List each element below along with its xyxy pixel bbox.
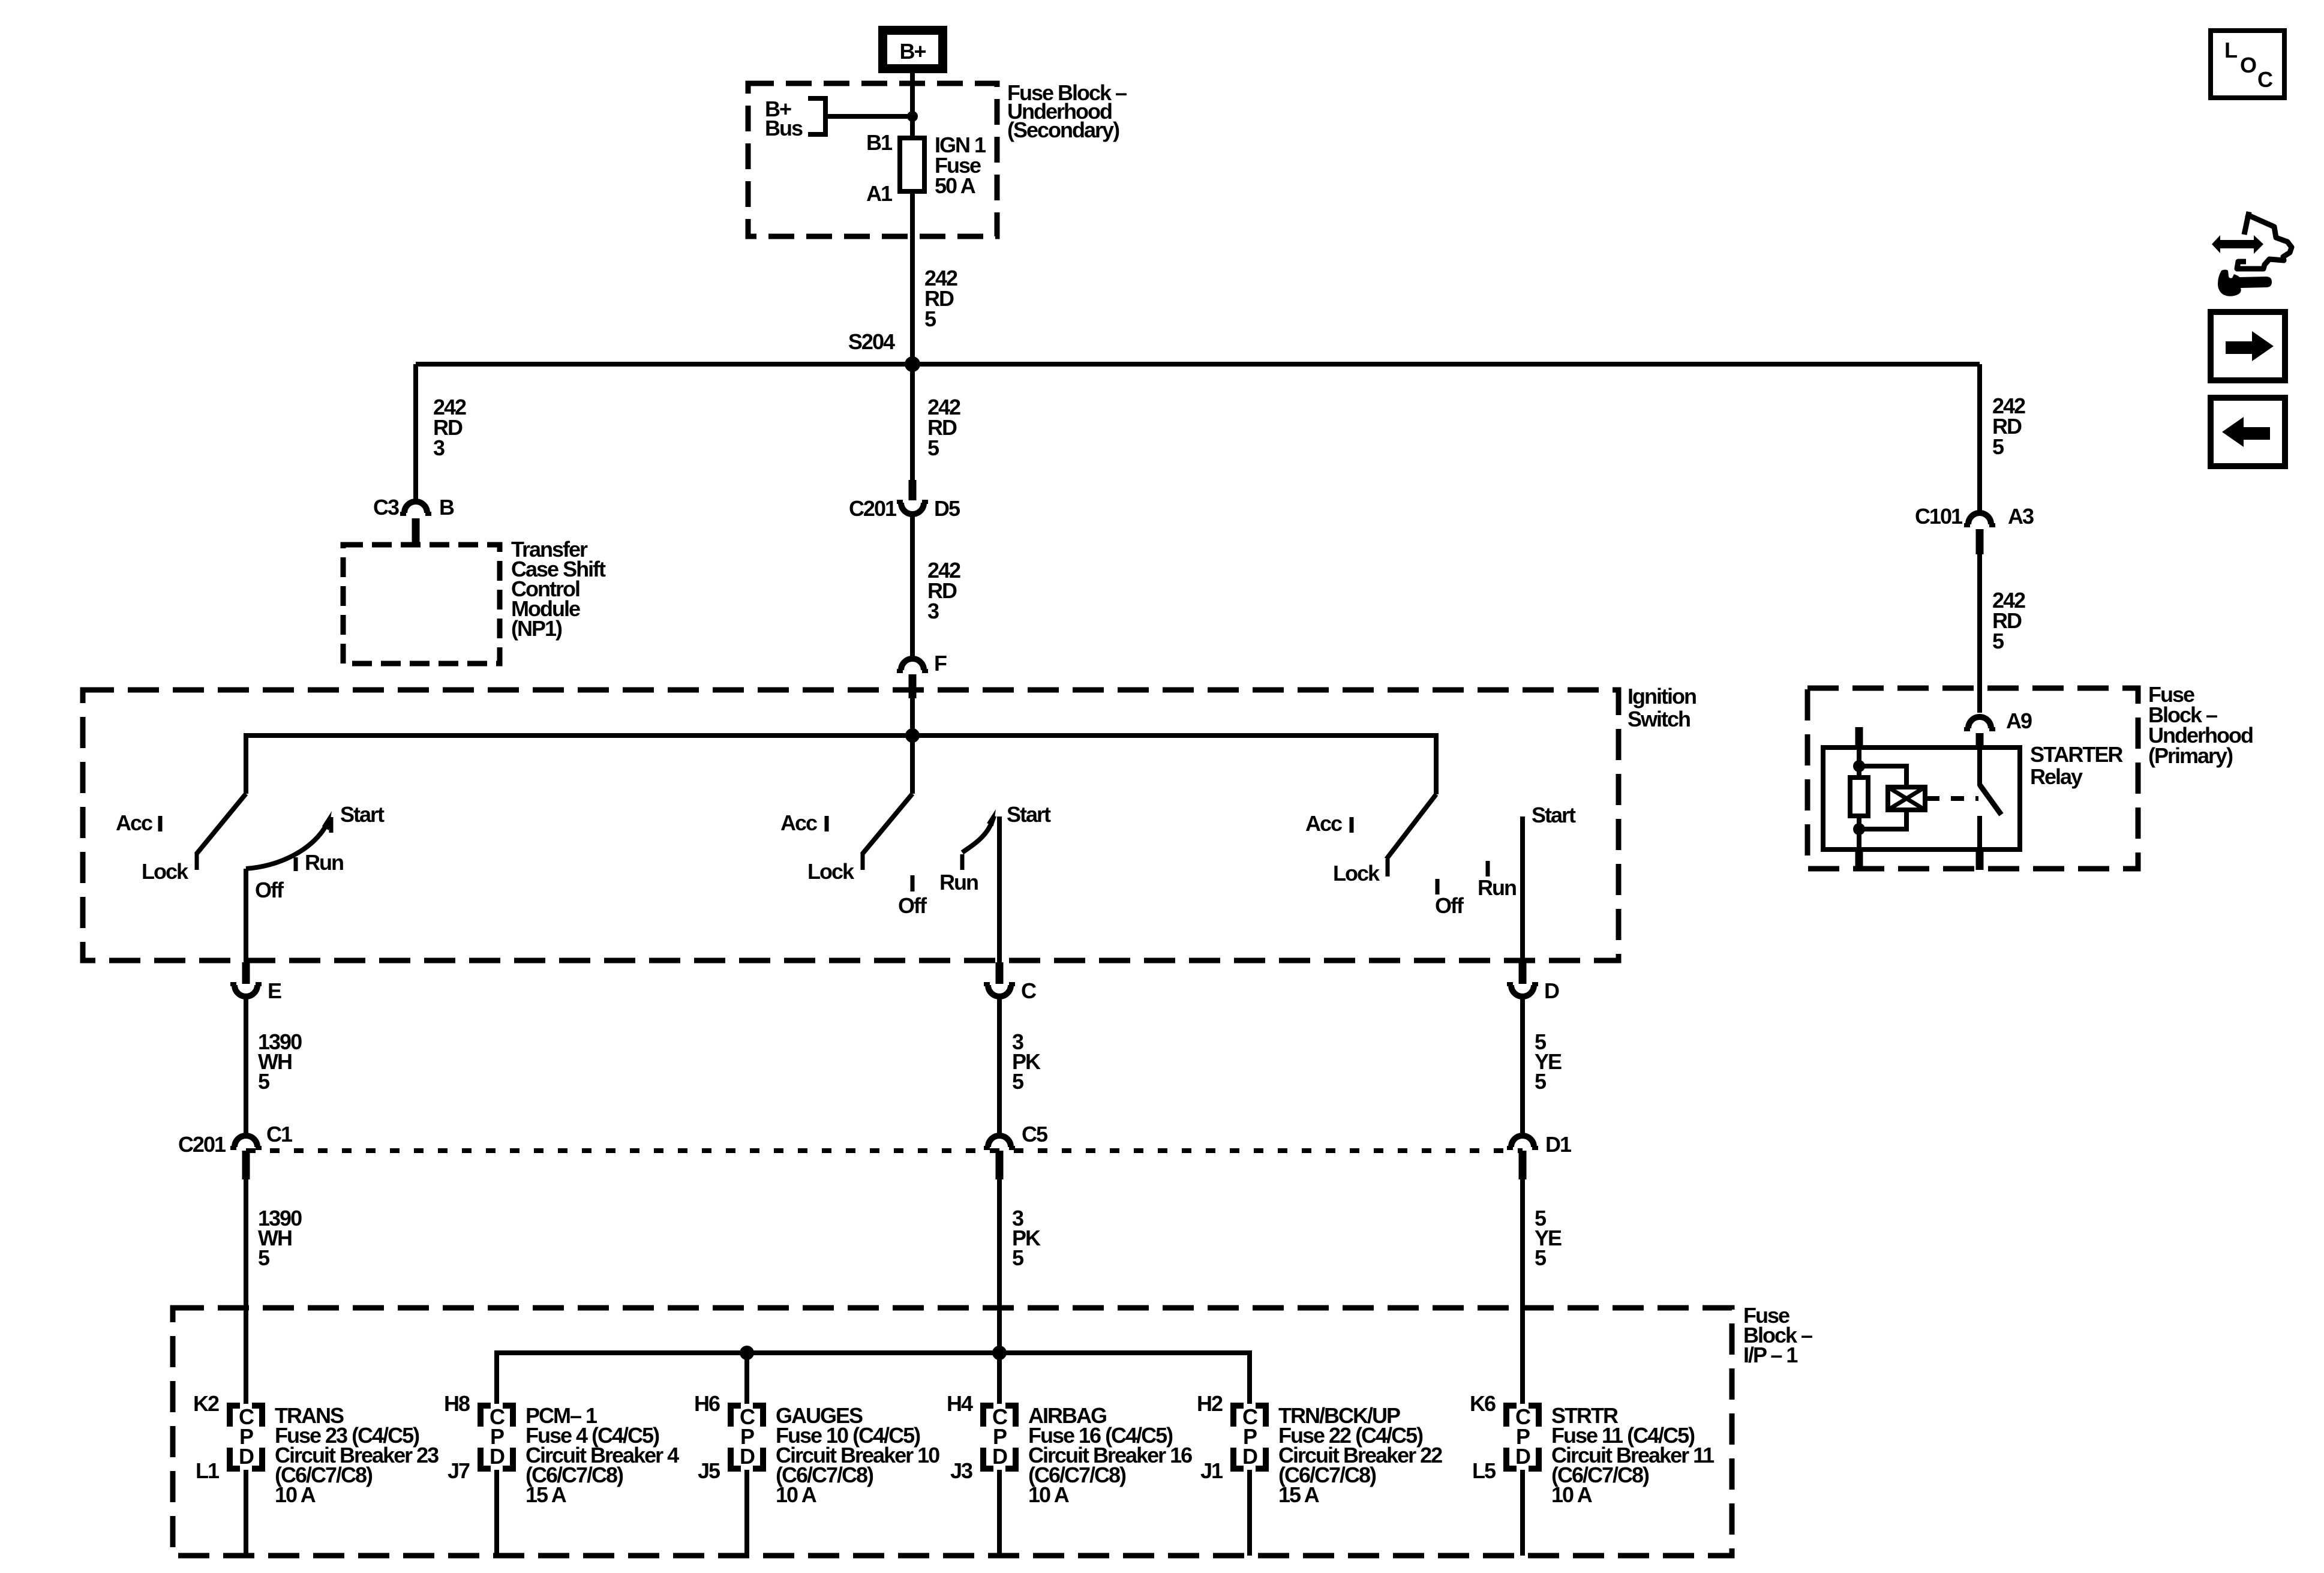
relay switch feed from A9 [1977,749,1982,786]
contact tick Run section 1 [294,857,298,871]
svg-text:C5: C5 [1022,1122,1048,1146]
fuse/circuit-breaker element TRANS pins K2/L1 [230,1404,262,1469]
junction coil top [1853,760,1865,772]
contact tick Lock section 3 [1386,859,1390,876]
label Ignition Switch [1628,684,1696,731]
label IGN 1 Fuse 50 A [935,133,986,198]
back arrow navigation icon [2211,398,2285,466]
wire S204 to connector C3 [413,364,418,503]
wire node to bottom pin [1857,829,1861,849]
wire coil bottom to node [1859,810,1906,829]
wire F into ignition switch [910,698,915,736]
junction node at fuse top [907,111,918,122]
contact tick Acc section 3 [1350,817,1354,833]
svg-text:C201: C201 [178,1132,226,1157]
powertrain wiring icon with wrench [2212,212,2292,296]
power feed B+ terminal box [883,31,943,69]
svg-text:(NP1): (NP1) [511,616,562,641]
svg-text:5: 5 [1535,1245,1547,1270]
wire D to C201 D1 [1520,998,1525,1134]
wire label 3 PK 5 [1012,1029,1041,1094]
wire E to C201 C1 [244,998,248,1134]
svg-text:E: E [268,978,281,1003]
svg-text:K2: K2 [193,1391,219,1416]
svg-text:B+: B+ [899,39,926,64]
fuse block - underhood (secondary) dashed box [748,83,997,236]
wire feed drop section 3 [1434,733,1439,794]
contact tick Run section 3 [1486,861,1490,876]
svg-text:D: D [740,1444,755,1469]
contact tick Off section 3 [1436,879,1440,894]
svg-text:A9: A9 [2006,709,2032,733]
junction at GAUGES tap [740,1346,754,1360]
fuse block underhood primary dashed box [1807,688,2138,869]
connector pin D below ignition switch [1507,962,1538,996]
B+ Bus stub [808,98,825,134]
junction on feed bus [905,728,920,743]
distribution wire inside fuse block [497,1353,1250,1404]
svg-text:5: 5 [258,1069,270,1094]
relay switch fixed contact [1977,816,1982,849]
starter relay K1 box [1823,748,2020,849]
connector C201 pin D1 [1507,1136,1538,1179]
wire Start output section 3 to D [1520,816,1525,962]
label GAUGES [776,1403,939,1507]
svg-text:L5: L5 [1472,1458,1496,1483]
wire label 5 YE 5 [1535,1206,1562,1270]
svg-text:Acc: Acc [780,810,817,835]
svg-text:D: D [239,1444,254,1469]
wire Start output section 2 to C [997,816,1002,962]
wire label 3 PK 5 [1012,1206,1041,1270]
wire STRTR output [1520,1470,1525,1556]
label PCM– 1 [526,1403,679,1507]
wire label 242 RD 3 [433,395,466,460]
connector pin C below ignition switch [984,962,1015,996]
connector pin E below ignition switch [230,962,262,996]
svg-text:10 A: 10 A [776,1482,817,1507]
svg-text:Run: Run [1478,875,1516,900]
label AIRBAG [1028,1403,1192,1507]
svg-text:C101: C101 [1915,504,1963,529]
ignition switch internal feed bus [246,733,1436,738]
svg-text:5: 5 [1012,1245,1024,1270]
junction at AIRBAG wire crossing [992,1346,1007,1360]
svg-text:D: D [490,1444,505,1469]
connector C201 pin C5 [984,1136,1015,1179]
connector pin F at ignition switch [897,659,928,698]
svg-text:H6: H6 [694,1391,720,1416]
svg-text:(Secondary): (Secondary) [1007,118,1119,142]
fuse IGN 1 50 A [900,138,924,191]
switch blade section 1 to Lock [196,794,246,854]
svg-text:Start: Start [1532,803,1576,827]
ignition switch dashed box [83,690,1619,960]
svg-text:J1: J1 [1200,1458,1223,1483]
contact tick Acc section 2 [825,816,829,831]
svg-text:Lock: Lock [807,859,855,884]
svg-text:5: 5 [1535,1069,1547,1094]
svg-text:Bus: Bus [765,116,803,140]
svg-text:C: C [1021,978,1037,1003]
wire TRN/BCK/UP output [1247,1470,1252,1556]
svg-text:Switch: Switch [1628,707,1690,731]
main bus wire from S204 left and right [416,362,1980,367]
LOC legend icon box [2211,31,2284,98]
svg-text:C1: C1 [266,1122,293,1146]
svg-text:D1: D1 [1545,1132,1572,1157]
svg-text:Off: Off [898,893,927,918]
relay coil winding symbol [1888,787,1925,810]
svg-text:Lock: Lock [1333,861,1380,885]
wire AIRBAG output [997,1470,1002,1556]
svg-text:B1: B1 [866,130,893,155]
svg-text:A3: A3 [2008,504,2034,529]
label TRANS [275,1403,439,1507]
svg-text:L: L [2224,38,2237,62]
svg-text:D: D [1515,1444,1530,1469]
wire label 242 RD 5 [927,395,960,460]
transfer case shift control module (NP1) dashed box [343,545,500,664]
svg-text:S204: S204 [848,329,895,354]
svg-text:Run: Run [939,870,978,894]
relay switch blade [1980,785,2001,815]
relay output pin bottom right [1976,849,1984,870]
wire GAUGES output [744,1470,749,1556]
svg-text:O: O [2240,53,2256,77]
svg-text:B: B [439,495,454,520]
wire S204 down to C201 D5 [910,364,915,481]
svg-text:A1: A1 [866,181,893,206]
svg-text:D: D [1544,978,1559,1003]
wire C to C201 C5 [997,998,1002,1134]
contact tick Acc section 1 [158,816,163,831]
wire label 5 YE 5 [1535,1029,1562,1094]
svg-text:Acc: Acc [116,810,152,835]
svg-text:D: D [992,1444,1007,1469]
wire label 1390 WH 5 [258,1206,302,1270]
wire GAUGES tap [744,1353,749,1404]
junction coil bottom [1853,823,1865,835]
relay resistor [1850,766,1868,829]
connector C201 pin D5 [897,480,928,514]
contact tick Off section 2 [911,875,915,891]
connector C3 pin B [400,502,431,544]
wire fuse A1 down to S204 [910,191,915,364]
connector C201 body dotted line [246,1148,1523,1153]
svg-text:15 A: 15 A [1278,1482,1320,1507]
contact tick Lock section 2 [861,852,865,870]
svg-text:(Primary): (Primary) [2148,743,2233,768]
wire label 242 RD 5 [1992,394,2025,459]
svg-text:I/P – 1: I/P – 1 [1743,1343,1798,1367]
svg-text:5: 5 [927,436,939,460]
wire C201 D5 to ignition switch F [910,516,915,656]
wire C101 to fuse block underhood primary A9 [1977,554,1982,713]
svg-text:J7: J7 [448,1458,470,1483]
contact tick Run section 2 [960,854,965,870]
connector C101 pin A3 [1964,513,1995,554]
svg-text:3: 3 [433,436,445,460]
mechanical link dashed [1926,796,1978,801]
label Transfer Case Shift Control Module (NP1) [511,537,606,641]
spring-return arc to Start section 2 [962,816,994,852]
contact tick Start section 1 [329,817,334,833]
svg-text:H2: H2 [1197,1391,1223,1416]
svg-text:50 A: 50 A [935,173,976,198]
svg-text:J3: J3 [950,1458,972,1483]
fuse/circuit-breaker element AIRBAG pins H4/J3 [983,1404,1016,1469]
wire C5 to fuse block IP AIRBAG [997,1179,1002,1404]
wire B+ Bus to fuse node [825,114,912,119]
svg-text:Ignition: Ignition [1628,684,1696,709]
switch blade section 3 to Lock [1386,794,1436,859]
wire label 1390 WH 5 [258,1029,302,1094]
wire PCM– 1 output [494,1470,499,1556]
svg-text:10 A: 10 A [1551,1482,1593,1507]
svg-text:5: 5 [1992,434,2004,459]
svg-text:H8: H8 [444,1391,470,1416]
fuse block I/P dashed box [173,1308,1732,1556]
svg-text:Acc: Acc [1305,811,1342,836]
connector pin A9 [1964,717,1995,749]
svg-text:5: 5 [1012,1069,1024,1094]
svg-text:15 A: 15 A [526,1482,567,1507]
wire feed drop section 2 [910,736,915,794]
label TRN/BCK/UP [1278,1403,1442,1507]
relay coil ground pin bottom left [1855,849,1863,870]
svg-text:C201: C201 [849,496,897,521]
svg-text:D: D [1242,1444,1257,1469]
relay coil branch wires [1859,766,1906,787]
svg-text:J5: J5 [698,1458,720,1483]
relay coil feed pin top left [1855,727,1863,749]
svg-text:10 A: 10 A [275,1482,316,1507]
svg-text:L1: L1 [196,1458,220,1483]
fuse/circuit-breaker element TRN/BCK/UP pins H2/J1 [1233,1404,1266,1469]
label Fuse Block - Underhood (Primary) [2148,682,2253,768]
wire label 242 RD 5 [924,266,957,331]
contact tick Lock section 1 [195,852,199,870]
svg-text:D5: D5 [934,496,960,521]
svg-text:10 A: 10 A [1028,1482,1070,1507]
svg-text:Start: Start [1007,802,1051,827]
svg-text:STARTER: STARTER [2030,742,2123,767]
wire S204 to connector C101 [1977,364,1982,514]
wire TRANS output [244,1470,248,1556]
svg-text:F: F [934,651,947,676]
relay internal wire to coil node [1857,749,1861,766]
fuse/circuit-breaker element GAUGES pins H6/J5 [731,1404,763,1469]
wire label 242 RD 5 [1992,588,2025,653]
wire B+ to IGN 1 fuse [910,73,915,138]
wire section 1 output to E [244,869,248,962]
svg-text:Start: Start [340,802,385,827]
svg-text:5: 5 [1992,629,2004,653]
wire label 242 RD 3 [927,558,960,623]
label STRTR [1551,1403,1715,1507]
forward arrow navigation icon [2211,312,2285,380]
svg-text:Off: Off [255,878,284,902]
svg-text:C: C [2257,67,2273,92]
connector C201 pin C1 [230,1136,262,1179]
svg-text:H4: H4 [947,1391,973,1416]
label STARTER Relay [2030,742,2123,789]
wire feed drop section 1 [244,733,248,794]
switch blade section 2 to Lock [862,794,912,854]
wire D1 to fuse block IP STRTR [1520,1179,1525,1404]
svg-text:Off: Off [1435,893,1464,918]
fuse/circuit-breaker element PCM– 1 pins H8/J7 [481,1404,513,1469]
splice S204 junction [905,356,920,372]
spring-return arc to Start section 1 [246,823,328,869]
svg-text:5: 5 [924,307,936,331]
svg-text:Relay: Relay [2030,764,2083,789]
label Fuse Block I/P - 1 [1743,1303,1812,1367]
svg-text:C3: C3 [373,495,399,520]
svg-text:Run: Run [305,850,343,875]
fuse/circuit-breaker element STRTR pins K6/L5 [1506,1404,1539,1469]
svg-text:3: 3 [927,599,939,623]
svg-text:Lock: Lock [142,859,189,884]
label Fuse Block - Underhood (Secondary) [1007,80,1127,142]
svg-text:5: 5 [258,1245,270,1270]
wire C1 to fuse block IP TRANS [244,1179,248,1404]
svg-text:K6: K6 [1470,1391,1496,1416]
